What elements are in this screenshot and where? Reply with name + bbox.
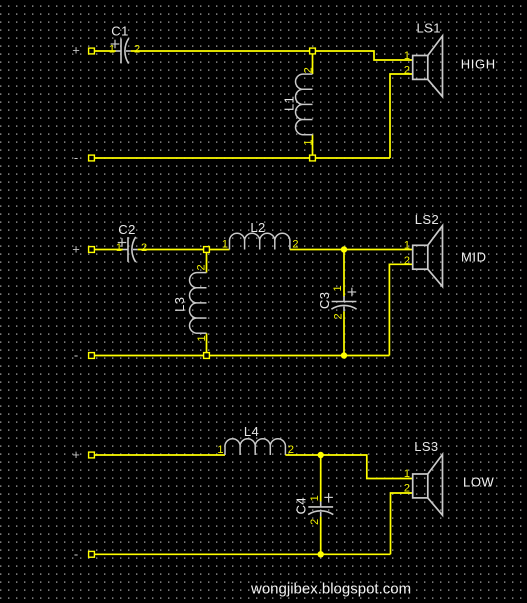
svg-text:2: 2 — [309, 519, 321, 525]
wire bottom rail low section — [93, 553, 391, 555]
svg-text:C2: C2 — [118, 222, 135, 237]
svg-text:2: 2 — [404, 64, 410, 76]
terminal pad T2 — [89, 155, 95, 161]
svg-text:L3: L3 — [172, 297, 187, 312]
wire J3 to L2 — [207, 249, 230, 251]
svg-text:LOW: LOW — [463, 475, 495, 490]
inductor L1 — [296, 74, 313, 135]
capacitor C1 — [111, 38, 131, 63]
inductor L4 — [225, 439, 285, 455]
terminal pad T5 — [89, 452, 95, 458]
terminal pad T1 — [89, 48, 95, 54]
wire LS2 pin 2 down to bottom rail — [389, 264, 412, 355]
svg-text:1: 1 — [109, 44, 115, 56]
wire D3 to LS3 pin 1 — [321, 455, 413, 479]
svg-text:-: - — [74, 547, 78, 562]
svg-text:1: 1 — [196, 335, 208, 341]
wire L2 to dot D1 — [290, 249, 344, 251]
svg-text:L2: L2 — [250, 220, 265, 235]
wire T1 to C1 — [93, 50, 116, 52]
capacitor C4 lead bottom — [320, 517, 322, 553]
svg-text:1: 1 — [217, 444, 223, 456]
inductor L2 — [230, 233, 290, 249]
svg-text:1: 1 — [332, 285, 344, 291]
junction dot D4 — [318, 551, 324, 557]
svg-text:C3: C3 — [317, 292, 332, 309]
svg-text:1: 1 — [404, 239, 410, 251]
svg-text:-: - — [74, 348, 78, 363]
svg-text:2: 2 — [333, 313, 345, 319]
junction J4 — [204, 353, 210, 359]
svg-text:2: 2 — [134, 44, 140, 56]
wire J1 to LS1 pin 1 — [313, 51, 413, 60]
wire C1 to junction J1 — [131, 50, 313, 52]
wire T3 to C2 — [93, 249, 123, 251]
junction J1 — [310, 48, 316, 54]
junction J3 — [204, 247, 210, 253]
svg-text:2: 2 — [196, 264, 208, 270]
svg-text:2: 2 — [404, 483, 410, 495]
inductor L1 lead top — [312, 53, 314, 74]
terminal pad T3 — [89, 247, 95, 253]
svg-text:1: 1 — [116, 242, 122, 254]
capacitor C2 — [118, 237, 138, 262]
svg-text:C1: C1 — [111, 24, 128, 39]
svg-text:1: 1 — [404, 50, 410, 62]
wire L4 to dot D3 — [285, 454, 320, 456]
wire D1 to LS2 pin 1 — [344, 249, 413, 251]
svg-text:wongjibex.blogspot.com: wongjibex.blogspot.com — [250, 581, 411, 598]
svg-text:L4: L4 — [244, 424, 259, 439]
svg-text:C4: C4 — [294, 497, 309, 514]
svg-text:1: 1 — [303, 139, 315, 145]
capacitor C4 lead top — [320, 457, 322, 502]
svg-text:2: 2 — [404, 255, 410, 267]
svg-text:+: + — [72, 447, 80, 462]
svg-text:L1: L1 — [282, 96, 297, 111]
capacitor C4 — [308, 493, 333, 516]
wire bottom rail mid section — [93, 355, 389, 357]
wire LS1 pin 2 down to J2 — [390, 74, 413, 158]
svg-text:1: 1 — [309, 495, 321, 501]
svg-text:+: + — [72, 242, 80, 257]
svg-text:LS3: LS3 — [414, 439, 438, 454]
svg-text:1: 1 — [222, 239, 228, 251]
junction dot D2 — [341, 352, 347, 358]
svg-text:-: - — [74, 150, 78, 165]
svg-text:2: 2 — [141, 242, 147, 254]
wire C2 to junction J3 — [138, 249, 207, 251]
terminal pad T6 — [89, 551, 95, 557]
svg-text:HIGH: HIGH — [461, 56, 496, 71]
svg-text:+: + — [72, 43, 80, 58]
wire bottom rail high section — [93, 157, 390, 159]
junction dot D1 — [341, 246, 347, 252]
inductor L1 lead bottom — [312, 135, 314, 156]
capacitor C3 — [331, 288, 356, 312]
junction dot D3 — [318, 452, 324, 458]
svg-text:LS2: LS2 — [415, 212, 439, 227]
wire T5 to L4 — [93, 454, 225, 456]
svg-text:LS1: LS1 — [417, 21, 441, 36]
junction J2 — [310, 155, 316, 161]
inductor L3 — [190, 273, 207, 334]
svg-text:MID: MID — [461, 250, 487, 265]
svg-text:2: 2 — [303, 67, 315, 73]
capacitor C3 lead top — [343, 252, 345, 297]
inductor L3 lead top — [206, 252, 208, 273]
capacitor C3 lead bottom — [343, 311, 345, 353]
wire LS3 pin 2 down to bottom rail — [391, 493, 413, 554]
speaker LS2 — [413, 226, 443, 287]
speaker LS3 — [413, 454, 443, 515]
speaker LS1 — [413, 36, 443, 97]
inductor L3 lead bottom — [206, 333, 208, 353]
terminal pad T4 — [89, 353, 95, 359]
svg-text:1: 1 — [404, 468, 410, 480]
